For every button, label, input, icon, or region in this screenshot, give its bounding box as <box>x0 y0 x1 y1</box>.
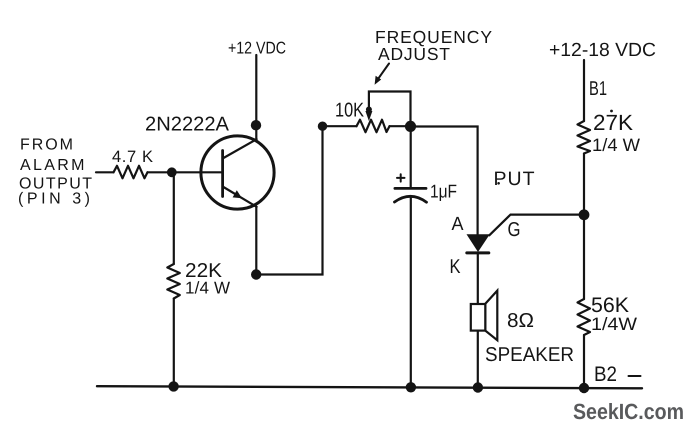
node rail capacitor <box>406 382 416 392</box>
svg-text:+12-18 VDC: +12-18 VDC <box>549 40 656 61</box>
svg-text:(PIN 3): (PIN 3) <box>18 191 90 208</box>
label 22K 1/4W <box>185 260 230 298</box>
arrow frequency adjust <box>377 64 389 81</box>
capacitor C1 1uF <box>395 174 427 202</box>
potentiometer R3 10K <box>357 120 390 133</box>
wire pot left lead <box>323 125 357 127</box>
svg-text:B1: B1 <box>589 78 607 100</box>
svg-text:10K: 10K <box>335 100 365 122</box>
PUT Q2 <box>467 215 585 304</box>
wire R4 to gate node <box>583 154 585 215</box>
resistor R2 22K <box>167 264 180 299</box>
ground rail (common negative) <box>97 386 642 388</box>
svg-text:K: K <box>450 256 462 278</box>
svg-text:1/4 W: 1/4 W <box>592 135 640 155</box>
svg-text:FROM: FROM <box>20 137 73 154</box>
wire capacitor to ground rail <box>410 197 412 388</box>
label FROM ALARM OUTPUT (PIN 3) <box>18 137 92 208</box>
wire junction down to R2 <box>173 172 175 264</box>
svg-text:ALARM: ALARM <box>20 157 85 174</box>
svg-text:1/4W: 1/4W <box>591 314 637 334</box>
svg-text:27K: 27K <box>593 110 633 135</box>
speaker LS1 <box>471 291 498 341</box>
svg-text:ADJUST: ADJUST <box>378 44 450 64</box>
node collector <box>251 120 261 130</box>
wire +12VDC to collector <box>255 55 257 139</box>
wire emitter down <box>255 207 257 275</box>
wire pot right lead <box>390 125 411 127</box>
wire emitter to pot branch <box>256 126 322 274</box>
wire R1 to base <box>148 171 223 173</box>
node rail B2 <box>579 383 589 393</box>
svg-text:4.7 K: 4.7 K <box>112 148 153 166</box>
label FREQUENCY ADJUST <box>375 27 492 64</box>
wire gate node down to R5 <box>583 215 585 299</box>
node pot left <box>318 122 327 131</box>
svg-text:B2: B2 <box>594 363 617 386</box>
node emitter junction <box>251 269 261 279</box>
transistor Q1 2N2222A <box>201 136 274 209</box>
node rail R2 <box>168 381 178 391</box>
wire input to R1 <box>96 171 114 173</box>
node gate/B1 <box>579 209 590 220</box>
pot wiper loop <box>369 92 411 127</box>
svg-text:1/4 W: 1/4 W <box>185 279 230 298</box>
svg-text:G: G <box>508 219 521 241</box>
svg-text:8Ω: 8Ω <box>507 310 534 332</box>
minus mark <box>629 375 641 377</box>
resistor R1 4.7K <box>114 166 148 179</box>
label 27K 1/4W <box>592 110 640 155</box>
svg-text:PUT: PUT <box>494 168 535 190</box>
svg-text:A: A <box>452 214 464 235</box>
pot wiper arrow <box>366 107 372 113</box>
wire supply to R4 <box>583 60 585 121</box>
wire R2 to ground rail <box>173 299 175 387</box>
wire R5 to rail <box>583 335 585 388</box>
svg-text:2N2222A: 2N2222A <box>145 113 230 135</box>
wire speaker to rail <box>477 331 479 388</box>
node rail speaker <box>473 382 483 392</box>
resistor R5 56K <box>578 299 591 335</box>
svg-text:SeekIC.com: SeekIC.com <box>573 399 684 424</box>
node base junction <box>167 167 177 177</box>
node pot right <box>405 121 416 132</box>
wire pot right to PUT anode <box>411 127 478 235</box>
resistor R4 27K <box>578 121 591 154</box>
label 56K 1/4W <box>591 294 637 334</box>
svg-text:SPEAKER: SPEAKER <box>485 344 574 366</box>
svg-text:1μF: 1μF <box>430 180 457 201</box>
wire pot right down to capacitor <box>410 126 412 187</box>
